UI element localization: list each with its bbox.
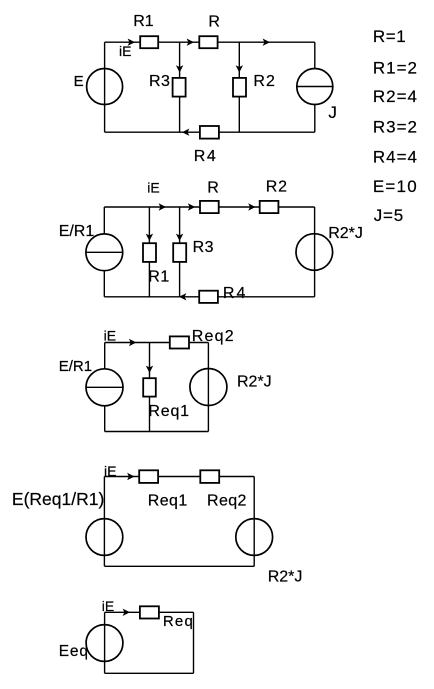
svg-text:R2: R2: [253, 73, 275, 90]
wire bottom c3: [105, 431, 209, 433]
voltage source Eeq: [86, 625, 123, 662]
resistor Req2 c4: [200, 470, 219, 483]
resistor Req c5: [140, 606, 159, 618]
svg-text:E/R1: E/R1: [59, 223, 95, 240]
svg-text:R1=2: R1=2: [373, 59, 418, 78]
svg-text:R3=2: R3=2: [373, 118, 418, 137]
wire right c5: [193, 612, 195, 673]
resistor R c2: [200, 201, 219, 213]
svg-text:R2: R2: [266, 179, 288, 196]
current source E/R1 c2: [86, 234, 123, 271]
current arrow down R1 c2: [146, 234, 153, 241]
resistor R2: [233, 78, 246, 97]
wire left c5: [104, 612, 106, 673]
svg-text:R4: R4: [223, 285, 247, 302]
current arrow into R c2: [188, 203, 195, 210]
current source J: [297, 69, 333, 105]
wire left c2: [103, 207, 105, 297]
svg-text:R2*J: R2*J: [328, 225, 363, 242]
resistor R3: [173, 78, 186, 97]
svg-text:Req: Req: [163, 613, 194, 630]
resistor R: [199, 36, 217, 48]
svg-text:R1: R1: [148, 268, 169, 285]
svg-text:iE: iE: [104, 463, 116, 479]
svg-text:iE: iE: [119, 43, 131, 59]
current arrow into R c1: [187, 39, 194, 46]
resistor Req1 c4: [139, 470, 158, 483]
wire left c3: [104, 343, 106, 432]
wire top c5: [105, 611, 194, 613]
current arrow toward J c1: [263, 39, 270, 46]
svg-text:Req1: Req1: [148, 403, 189, 420]
wire top c2: [104, 206, 314, 208]
svg-text:Req2: Req2: [192, 328, 235, 345]
svg-text:E: E: [74, 73, 84, 90]
current arrow down R3 c1: [176, 65, 183, 72]
wire bottom c2: [104, 296, 314, 298]
current arrow down Req1 c3: [146, 366, 153, 373]
svg-text:Req1: Req1: [148, 492, 188, 509]
wire R3 branch c2: [179, 207, 181, 297]
svg-text:E(Req1/R1): E(Req1/R1): [12, 489, 104, 509]
svg-text:R: R: [208, 13, 220, 30]
resistor R2 c2: [260, 201, 279, 213]
wire bottom c4: [104, 565, 254, 567]
resistor R3 c2: [173, 243, 186, 262]
svg-text:iE: iE: [102, 598, 114, 614]
svg-text:R1: R1: [133, 13, 154, 30]
svg-text:R3: R3: [149, 73, 170, 90]
wire top c3: [105, 342, 209, 344]
svg-text:E/R1: E/R1: [59, 358, 92, 375]
svg-text:iE: iE: [147, 179, 159, 195]
current arrow left through R4 c2: [179, 293, 186, 300]
wire top c4: [104, 476, 254, 478]
svg-text:J=5: J=5: [374, 206, 404, 225]
svg-text:E=10: E=10: [373, 177, 418, 196]
resistor R1 c2: [143, 243, 156, 262]
svg-text:R4: R4: [194, 148, 217, 165]
current arrow iE c4: [127, 473, 134, 480]
wire left c4: [103, 477, 105, 567]
voltage source R2*J c2: [296, 234, 333, 271]
svg-text:J: J: [328, 103, 337, 122]
wire right c3: [207, 343, 209, 432]
current source E/R1 c3: [86, 369, 123, 406]
voltage source E: [87, 69, 123, 105]
wire right c2: [314, 207, 316, 297]
wire Req1 branch c3: [149, 343, 151, 432]
wire top c1: [105, 41, 315, 43]
wire R3 branch c1: [179, 42, 181, 132]
wire right c1: [314, 42, 316, 132]
svg-text:Req2: Req2: [207, 492, 247, 509]
svg-text:R: R: [207, 179, 219, 196]
current arrow iE c3: [129, 339, 136, 346]
voltage source R2*J c4: [236, 519, 273, 556]
wire R2 branch c1: [238, 42, 240, 132]
current arrow down R3 c2: [176, 234, 183, 241]
voltage source R2*J c3: [190, 369, 227, 406]
resistor R4: [200, 126, 219, 139]
current arrow iE c1: [128, 39, 135, 46]
wire left c1: [104, 42, 106, 132]
wire bottom c1: [105, 131, 315, 133]
current arrow left through R4 c1: [182, 129, 189, 136]
wire R1 branch c2: [148, 207, 150, 297]
svg-text:R2=4: R2=4: [373, 87, 418, 106]
voltage source E(Req1/R1): [86, 519, 123, 556]
current arrow down R2 c1: [236, 65, 243, 72]
svg-text:R=1: R=1: [373, 27, 406, 46]
svg-text:R4=4: R4=4: [373, 147, 418, 166]
current arrow iE c5: [123, 609, 130, 616]
resistor R1: [140, 36, 158, 48]
wire right c4: [253, 477, 255, 567]
svg-text:Eeq: Eeq: [59, 643, 89, 660]
resistor Req2 c3: [170, 336, 189, 348]
svg-text:R2*J: R2*J: [268, 569, 303, 586]
wire bottom c5: [105, 672, 194, 674]
resistor Req1 c3: [143, 378, 156, 396]
resistor R4 c2: [199, 291, 218, 303]
current arrow iE c2: [159, 203, 166, 210]
svg-text:iE: iE: [104, 327, 116, 343]
svg-text:R2*J: R2*J: [237, 373, 272, 390]
svg-text:R3: R3: [193, 239, 214, 256]
current arrow into R2 c2: [248, 203, 255, 210]
